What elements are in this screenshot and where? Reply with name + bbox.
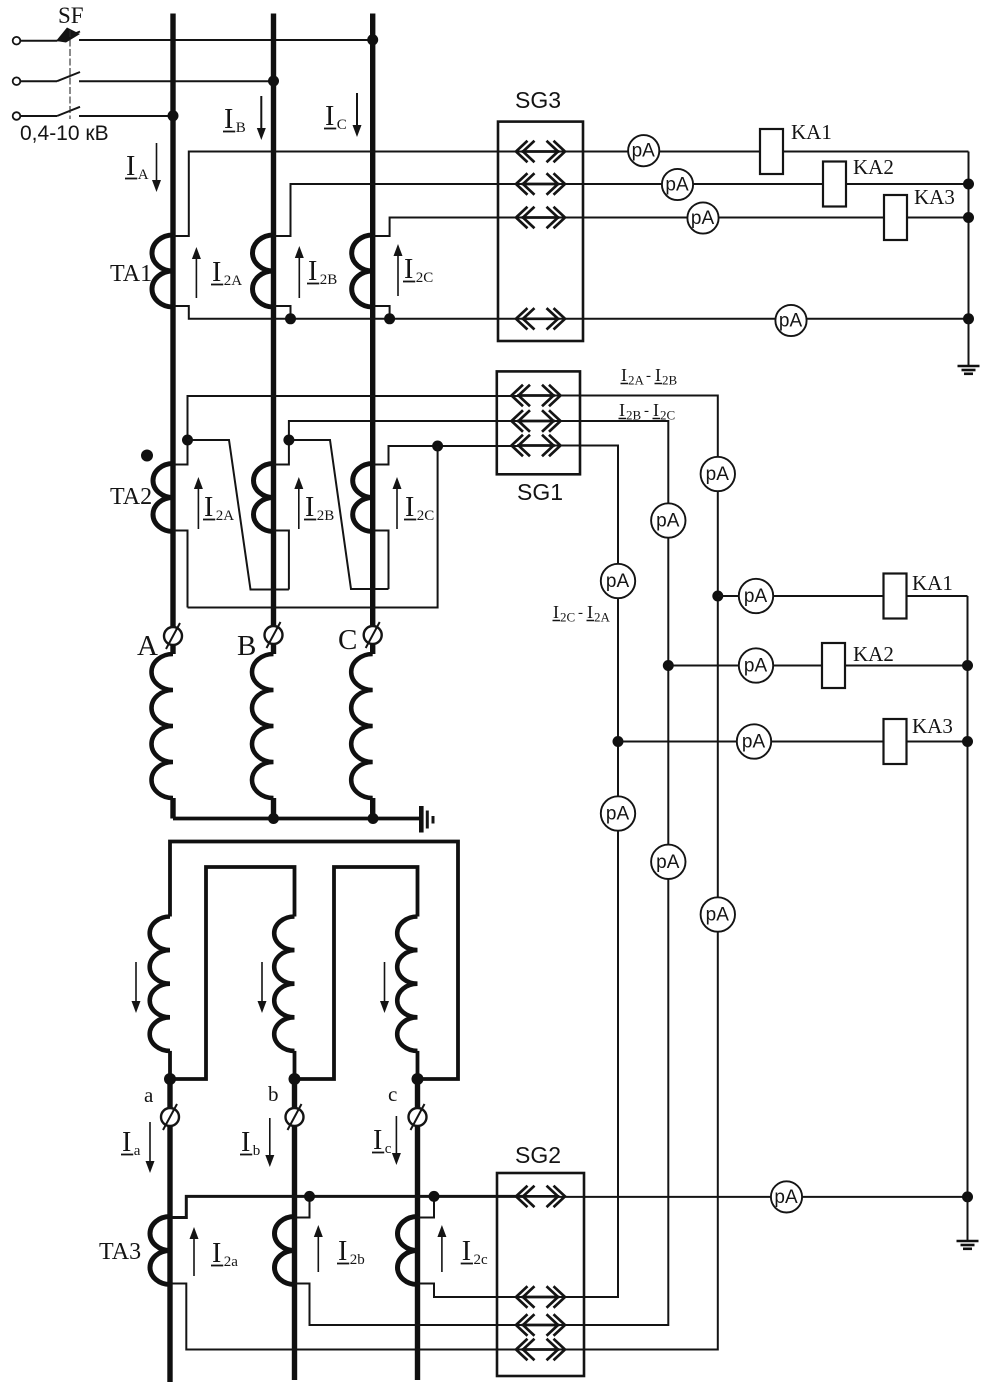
ammeter pA row2 (662, 169, 693, 200)
ammeter pA KA1 row (739, 579, 773, 613)
label phase A (137, 630, 158, 662)
label phase c (388, 1082, 397, 1106)
svg-text:pA: pA (742, 732, 766, 753)
CT TA3 phase c winding (398, 1217, 418, 1285)
svg-text:pA: pA (665, 175, 689, 196)
svg-text:I: I (655, 365, 661, 385)
wire TA2 B secondary top to SG1 row2 (274, 421, 520, 465)
svg-text:I: I (224, 104, 233, 135)
svg-text:2b: 2b (350, 1252, 365, 1268)
svg-text:a: a (134, 1143, 141, 1159)
svg-text:A: A (138, 167, 149, 183)
svg-text:I: I (122, 1127, 131, 1158)
svg-text:pA: pA (656, 511, 680, 532)
arrow I2a TA3 (190, 1227, 239, 1276)
wire KA1 row middle (718, 595, 968, 597)
current label I_B with arrow (223, 96, 266, 140)
label I2C-I2A (553, 602, 611, 625)
CT TA2 phase B winding (254, 464, 274, 532)
test block SG3 label (515, 87, 561, 113)
wire delta A-top to B-bottom (188, 440, 289, 590)
svg-text:pA: pA (656, 852, 680, 873)
svg-text:pA: pA (744, 586, 768, 607)
SG2 jack row2 (516, 1287, 565, 1307)
winding primary B (252, 644, 274, 819)
junction neutral B (268, 813, 279, 824)
junction delta c (412, 1073, 424, 1085)
wire delta C-top return to A-bottom (188, 446, 438, 608)
insulator bushing phase C (364, 622, 382, 648)
junction pole2-phaseB (268, 76, 279, 87)
svg-text:-: - (644, 403, 649, 419)
SF pole 2 wire and blade (20, 72, 273, 81)
terminal pole 3 (13, 112, 21, 120)
svg-text:TA2: TA2 (110, 484, 152, 510)
svg-text:2A: 2A (628, 373, 645, 388)
wire SG2 row1 to ground rail (558, 1196, 968, 1198)
right rail top section (968, 152, 970, 367)
svg-text:pA: pA (744, 656, 768, 677)
svg-text:2C: 2C (417, 508, 435, 524)
junction delta a (164, 1073, 176, 1085)
svg-text:c: c (388, 1082, 397, 1106)
wire TA3 a secondary bottom to SG2 row4 (170, 1284, 523, 1350)
SG2 jack row1 (516, 1187, 565, 1207)
svg-text:C: C (338, 624, 357, 656)
ammeter pA row1 (628, 135, 659, 166)
winding secondary a (150, 917, 170, 1080)
svg-text:pA: pA (632, 141, 656, 162)
svg-text:2B: 2B (317, 508, 335, 524)
ammeter pA riser1 upper (701, 457, 735, 491)
test block SG3 box (498, 122, 583, 341)
SG2 jack row4 (516, 1340, 565, 1360)
CT TA2 phase A winding (153, 464, 173, 532)
junction riser1 KA1 row (712, 591, 723, 602)
svg-text:I: I (212, 1238, 221, 1269)
svg-text:pA: pA (779, 311, 803, 332)
svg-text:KA3: KA3 (914, 185, 955, 209)
svg-text:KA2: KA2 (853, 155, 894, 179)
SG3 jack row1 (516, 142, 565, 162)
wire delta b-c link (295, 867, 418, 1079)
svg-text:b: b (253, 1143, 260, 1159)
svg-text:-: - (646, 368, 651, 384)
wire TA2 C secondary top to SG1 row3 (373, 446, 519, 465)
neutral bus (173, 817, 421, 821)
svg-text:I: I (653, 400, 659, 420)
current label I_A with arrow (125, 143, 161, 192)
terminal pole 1 (13, 37, 21, 45)
label phase a (144, 1083, 154, 1107)
label phase b (268, 1082, 279, 1106)
relay KA3 middle (884, 714, 953, 764)
svg-text:I: I (462, 1236, 471, 1267)
junction TA1 B return (285, 313, 296, 324)
svg-text:A: A (137, 630, 158, 662)
test block SG1 label (517, 479, 563, 505)
wire TA2 B secondary bottom (274, 531, 289, 590)
junction right rail row2 (963, 179, 974, 190)
svg-text:I: I (619, 400, 625, 420)
svg-text:B: B (237, 630, 256, 662)
phase b feeder (292, 1126, 297, 1380)
svg-text:I: I (404, 254, 413, 285)
insulator bushing phase a (161, 1104, 179, 1130)
wire TA1 B secondary top to SG3 row2 (274, 184, 524, 236)
svg-text:SG2: SG2 (515, 1142, 561, 1168)
wire delta a-b link (170, 867, 295, 1079)
wire TA1 common return to SG3 row4 (173, 306, 523, 319)
phase b feeder upper (292, 1079, 297, 1108)
svg-text:I: I (338, 1236, 347, 1267)
svg-text:a: a (144, 1083, 154, 1107)
CT TA1 label (110, 261, 152, 287)
svg-text:pA: pA (691, 208, 715, 229)
SG1 jack row3 (512, 436, 561, 456)
svg-text:2B: 2B (320, 272, 338, 288)
label phase C (338, 624, 357, 656)
svg-text:2A: 2A (216, 508, 235, 524)
SG2 jack row3 (516, 1315, 565, 1335)
wire SG1 row3 riser to SG2 row2 (553, 446, 618, 1298)
SF pole 1 wire and blade (20, 28, 372, 43)
relay KA3 top (884, 185, 955, 240)
junction right rail row3 (963, 212, 974, 223)
ground bottom right (957, 1197, 979, 1249)
wire delta top loop (170, 842, 458, 1080)
svg-text:I: I (553, 602, 559, 622)
junction pole1-phaseC (367, 34, 378, 45)
svg-text:-: - (578, 605, 583, 621)
current label I_b with arrow (240, 1118, 274, 1167)
arrow winding a current (132, 962, 141, 1013)
arrow I2B TA1 (295, 246, 337, 298)
arrow I2b TA3 (314, 1225, 365, 1272)
wire TA2 C secondary bottom (373, 531, 389, 590)
SG3 jack row3 (516, 208, 565, 228)
phase C bus (370, 14, 375, 627)
wire TA1 B secondary bottom (274, 306, 291, 319)
arrow winding b current (258, 962, 267, 1013)
svg-text:2a: 2a (224, 1254, 239, 1270)
insulator bushing phase B (265, 622, 283, 648)
svg-text:pA: pA (606, 804, 630, 825)
svg-text:I: I (241, 1127, 250, 1158)
junction TA2 B tap (283, 435, 294, 446)
junction rail KA2 row (962, 660, 973, 671)
winding primary C (351, 644, 373, 819)
wire TA1 C secondary top to SG3 row3 (373, 218, 523, 237)
wire KA3 row middle (618, 741, 968, 743)
arrow I2C TA2 (393, 477, 435, 529)
wire delta B-top to C-bottom (289, 440, 389, 589)
wire KA2 row middle (668, 665, 967, 667)
phase c feeder (415, 1126, 420, 1380)
wire SG3 row3 to relay KA3 (558, 217, 969, 219)
junction TA1 C return (384, 313, 395, 324)
svg-text:SF: SF (58, 3, 84, 28)
arrow I2A TA1 (192, 247, 242, 298)
SF mechanical link dashed (69, 30, 71, 119)
arrow I2A TA2 (194, 477, 234, 529)
ammeter pA riser2 upper (651, 503, 685, 537)
label I2A-I2B (621, 365, 678, 388)
CT TA1 phase C winding (352, 235, 373, 307)
junction right rail row4 (963, 313, 974, 324)
insulator bushing phase b (286, 1104, 304, 1130)
CT TA3 phase a winding (150, 1217, 170, 1285)
winding secondary c (397, 917, 417, 1080)
CT TA2 phase C winding (353, 464, 373, 532)
insulator bushing phase c (409, 1104, 427, 1130)
circuit breaker SF label (58, 3, 84, 28)
ammeter pA riser2 lower (651, 845, 685, 879)
ammeter pA row3 (687, 202, 718, 233)
ammeter pA KA2 row (739, 648, 773, 682)
wire TA3 c secondary bottom to SG2 row2 (418, 1284, 524, 1298)
svg-text:I: I (405, 492, 414, 523)
ammeter pA riser3 upper (601, 564, 635, 598)
wire SG1 row2 riser to SG2 row3 (553, 421, 668, 1325)
current label I_c with arrow (372, 1116, 401, 1165)
terminal pole 2 (13, 77, 21, 85)
arrow I2c TA3 (437, 1225, 488, 1272)
svg-text:2B: 2B (662, 373, 678, 388)
test block SG2 label (515, 1142, 561, 1168)
junction riser2 KA2 row (663, 660, 674, 671)
svg-text:0,4-10 кВ: 0,4-10 кВ (20, 122, 109, 145)
ammeter pA riser3 lower (601, 796, 635, 830)
svg-text:I: I (308, 256, 317, 287)
relay KA2 top (823, 155, 894, 207)
SG3 jack row2 (516, 174, 565, 194)
svg-text:I: I (126, 151, 135, 182)
polarity dot TA2 (141, 450, 153, 462)
junction TA3 b common (304, 1191, 315, 1202)
test block SG1 box (497, 371, 580, 474)
SG3 jack row4 (516, 309, 565, 329)
SF pole 3 wire and blade (20, 107, 173, 116)
svg-text:KA2: KA2 (853, 642, 894, 666)
relay KA1 middle (884, 571, 953, 619)
CT TA3 phase b winding (275, 1217, 295, 1285)
wire SG3 row1 to relay KA1 (558, 151, 969, 153)
svg-text:TA3: TA3 (99, 1239, 141, 1265)
junction TA2 C tap (432, 441, 443, 452)
ammeter pA SG2 row1 (771, 1181, 802, 1212)
svg-text:I: I (621, 365, 627, 385)
arrow I2B TA2 (294, 477, 334, 529)
svg-text:I: I (212, 257, 221, 288)
svg-text:pA: pA (706, 905, 730, 926)
svg-text:2A: 2A (224, 273, 243, 289)
svg-text:I: I (373, 1125, 382, 1156)
wire TA1 C secondary bottom (373, 306, 390, 319)
ammeter pA row4 (775, 305, 806, 336)
svg-text:I: I (305, 492, 314, 523)
ammeter pA KA3 row (737, 724, 771, 758)
SG1 jack row1 (512, 386, 561, 406)
junction TA2 A tap (182, 435, 193, 446)
label phase B (237, 630, 256, 662)
wire TA3 a secondary top common to SG2 row1 (170, 1196, 523, 1217)
svg-text:KA1: KA1 (791, 120, 832, 144)
test block SG2 box (497, 1173, 584, 1376)
junction pole3-phaseA (168, 110, 179, 121)
wire TA2 A secondary top to SG1 row1 (173, 396, 519, 465)
wire TA3 b secondary bottom to SG2 row3 (295, 1284, 524, 1326)
ammeter pA riser1 lower (701, 897, 735, 931)
phase c feeder upper (415, 1079, 420, 1108)
svg-text:I: I (204, 492, 213, 523)
wire TA3 c secondary top (418, 1196, 435, 1217)
winding secondary b (274, 917, 294, 1080)
svg-text:2C: 2C (416, 270, 434, 286)
wire SG1 row1 riser to SG2 row4 (553, 396, 718, 1350)
svg-text:2C: 2C (560, 610, 575, 625)
SG1 jack row2 (512, 411, 561, 431)
svg-text:SG1: SG1 (517, 479, 563, 505)
current label I_a with arrow (121, 1122, 155, 1173)
relay KA1 top (760, 120, 832, 174)
wire SG3 row2 to relay KA2 (558, 183, 969, 185)
CT TA3 label (99, 1239, 141, 1265)
wire TA3 b secondary top (295, 1196, 310, 1217)
label I2B-I2C (619, 400, 676, 423)
neutral ground electrode (421, 806, 433, 833)
voltage label 0,4-10 kV (20, 122, 109, 145)
phase a feeder upper (167, 1079, 172, 1108)
phase B bus (271, 14, 276, 627)
svg-text:c: c (385, 1141, 392, 1157)
svg-text:I: I (587, 602, 593, 622)
arrow I2C TA1 (394, 244, 434, 296)
svg-text:TA1: TA1 (110, 261, 152, 287)
phase a feeder (167, 1126, 172, 1382)
junction riser3 KA3 row (613, 736, 624, 747)
phase A bus (170, 14, 175, 628)
junction rail KA3 row (962, 736, 973, 747)
right rail middle section (967, 596, 969, 1241)
CT TA1 phase B winding (253, 235, 274, 307)
junction bottom rail (962, 1191, 973, 1202)
CT TA1 phase A winding (152, 235, 173, 307)
svg-text:pA: pA (774, 1187, 798, 1208)
wire TA1 A secondary top to SG3 row1 (173, 152, 523, 237)
svg-text:2c: 2c (473, 1252, 488, 1268)
svg-text:KA3: KA3 (912, 714, 953, 738)
insulator bushing phase A (164, 623, 182, 649)
arrow winding c current (380, 962, 389, 1013)
wire TA2 A secondary bottom (173, 531, 188, 608)
svg-text:2A: 2A (594, 610, 611, 625)
svg-text:pA: pA (706, 464, 730, 485)
wire SG3 row4 common (558, 318, 969, 320)
svg-text:B: B (236, 120, 246, 136)
svg-text:b: b (268, 1082, 279, 1106)
ground top right (958, 319, 980, 374)
CT TA2 label (110, 484, 152, 510)
junction TA3 c common (429, 1191, 440, 1202)
svg-text:KA1: KA1 (912, 571, 953, 595)
svg-text:C: C (337, 117, 347, 133)
relay KA2 middle (822, 642, 894, 688)
svg-text:pA: pA (606, 571, 630, 592)
winding primary A (152, 645, 174, 819)
junction neutral C (368, 813, 379, 824)
current label I_C with arrow (324, 93, 362, 137)
svg-text:I: I (325, 101, 334, 132)
svg-text:SG3: SG3 (515, 87, 561, 113)
junction delta b (289, 1073, 301, 1085)
